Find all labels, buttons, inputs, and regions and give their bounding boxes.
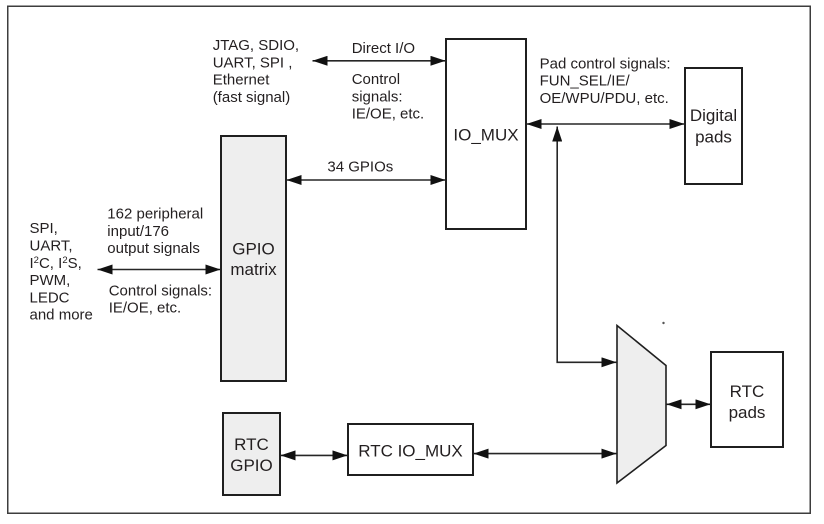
wire pad-control-to-mux vertical connector (557, 127, 616, 363)
wire peripherals-to-GPIO matrix arrow (98, 269, 221, 271)
svg-text:FUN_SEL/IE/: FUN_SEL/IE/ (540, 73, 631, 90)
label pad control signals (540, 55, 671, 107)
svg-text:162 peripheral: 162 peripheral (107, 206, 203, 223)
label control signals IE/OE (left) (109, 282, 212, 316)
svg-text:UART,: UART, (30, 238, 73, 255)
wire mux-to-RTC pads arrow (667, 403, 711, 405)
block Digital pads (685, 68, 742, 184)
wire IO_MUX-to-Digital pads (pad control arrow) (527, 123, 685, 125)
svg-text:input/176: input/176 (107, 223, 169, 240)
svg-text:PWM,: PWM, (30, 272, 71, 289)
block GPIO matrix (221, 136, 286, 381)
svg-text:Ethernet: Ethernet (213, 72, 271, 89)
svg-text:GPIO: GPIO (230, 456, 273, 475)
svg-text:Digital: Digital (690, 106, 737, 125)
svg-text:Pad control signals:: Pad control signals: (540, 55, 671, 72)
svg-text:IO_MUX: IO_MUX (453, 126, 518, 145)
svg-text:LEDC: LEDC (30, 289, 70, 306)
wire RTC IO_MUX-to-mux arrow (474, 453, 617, 455)
svg-text:SPI,: SPI, (30, 220, 58, 237)
svg-text:JTAG, SDIO,: JTAG, SDIO, (213, 37, 299, 54)
svg-text:RTC: RTC (234, 435, 269, 454)
svg-text:34 GPIOs: 34 GPIOs (327, 158, 393, 175)
svg-text:RTC IO_MUX: RTC IO_MUX (358, 441, 463, 460)
svg-text:OE/WPU/PDU, etc.: OE/WPU/PDU, etc. (540, 90, 669, 107)
label control signals IE/OE (top) (352, 71, 425, 123)
block IO_MUX (446, 39, 526, 229)
svg-text:matrix: matrix (230, 260, 277, 279)
label peripherals list SPI UART I2C I2S PWM LEDC (30, 220, 93, 324)
svg-text:IE/OE, etc.: IE/OE, etc. (352, 106, 425, 123)
svg-text:output signals: output signals (107, 240, 200, 257)
stray dot (662, 322, 664, 324)
svg-text:UART, SPI ,: UART, SPI , (213, 54, 293, 71)
svg-text:pads: pads (695, 127, 732, 146)
svg-text:(fast signal): (fast signal) (213, 89, 291, 106)
svg-text:RTC: RTC (730, 382, 765, 401)
svg-text:Control signals:: Control signals: (109, 282, 212, 299)
svg-text:Control: Control (352, 71, 400, 88)
svg-text:I2C, I2S,: I2C, I2S, (30, 255, 82, 272)
svg-text:Direct I/O: Direct I/O (352, 40, 415, 57)
block RTC GPIO (223, 413, 280, 495)
wire RTC GPIO-to-RTC IO_MUX arrow (281, 454, 348, 456)
mux trapezoid (617, 326, 666, 484)
label fast peripheral signals (213, 37, 299, 106)
wire peripherals-to-IO_MUX (Direct I/O arrow) (313, 60, 446, 62)
svg-text:and more: and more (30, 307, 93, 324)
block RTC pads (711, 352, 783, 447)
block RTC IO_MUX (348, 424, 473, 475)
label 162 peripheral input/176 output signals (107, 206, 203, 258)
svg-text:GPIO: GPIO (232, 240, 275, 259)
svg-text:IE/OE, etc.: IE/OE, etc. (109, 300, 182, 317)
svg-text:signals:: signals: (352, 88, 403, 105)
svg-text:pads: pads (729, 403, 766, 422)
wire GPIO matrix-to-IO_MUX (34 GPIOs arrow) (287, 179, 446, 181)
